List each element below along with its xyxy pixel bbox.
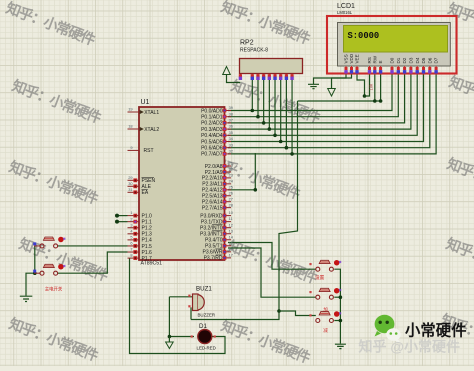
- svg-text:BUZ1: BUZ1: [196, 286, 212, 293]
- svg-text:RP2: RP2: [240, 40, 254, 47]
- svg-text:22: 22: [229, 167, 233, 172]
- svg-text:D5: D5: [421, 57, 426, 63]
- svg-text:D0: D0: [390, 57, 395, 63]
- svg-text:10k: 10k: [369, 83, 374, 91]
- svg-text:29: 29: [128, 175, 132, 180]
- svg-text:S:0000: S:0000: [348, 31, 380, 41]
- svg-text:31: 31: [128, 187, 132, 192]
- svg-text:15: 15: [229, 240, 233, 245]
- svg-text:D3: D3: [409, 57, 414, 63]
- svg-text:P0.1/AD1: P0.1/AD1: [201, 115, 223, 121]
- svg-text:13: 13: [229, 228, 233, 233]
- svg-text:P2.7/A15: P2.7/A15: [202, 205, 223, 211]
- svg-text:23: 23: [229, 173, 233, 178]
- svg-text:主电开关: 主电开关: [45, 286, 63, 293]
- svg-text:VDD: VDD: [349, 53, 354, 63]
- svg-text:XTAL2: XTAL2: [144, 127, 159, 133]
- svg-text:39: 39: [229, 105, 233, 110]
- svg-text:6: 6: [130, 241, 132, 246]
- svg-text:19: 19: [128, 107, 132, 112]
- svg-text:XTAL1: XTAL1: [144, 110, 159, 116]
- svg-text:P3.7/RD: P3.7/RD: [204, 256, 223, 262]
- svg-text:12: 12: [229, 222, 233, 227]
- svg-text:P0.0/AD0: P0.0/AD0: [201, 108, 223, 114]
- svg-text:LM016L: LM016L: [337, 10, 353, 15]
- svg-text:21: 21: [229, 161, 233, 166]
- svg-text:28: 28: [229, 202, 233, 207]
- svg-text:D2: D2: [402, 57, 407, 63]
- svg-text:36: 36: [229, 124, 233, 129]
- svg-text:P0.7/AD7: P0.7/AD7: [201, 152, 223, 158]
- svg-text:EA: EA: [142, 190, 149, 196]
- svg-text:37: 37: [229, 118, 233, 123]
- svg-text:D7: D7: [434, 57, 439, 63]
- svg-text:P0.6/AD6: P0.6/AD6: [201, 146, 223, 152]
- svg-text:P0.4/AD4: P0.4/AD4: [201, 133, 223, 139]
- svg-text:9: 9: [130, 145, 132, 150]
- svg-text:25: 25: [229, 184, 233, 189]
- svg-text:设置: 设置: [315, 274, 325, 281]
- svg-text:2: 2: [130, 216, 132, 221]
- svg-text:小常硬件: 小常硬件: [405, 322, 467, 340]
- svg-text:33: 33: [229, 142, 233, 147]
- svg-text:11: 11: [229, 216, 233, 221]
- svg-text:35: 35: [229, 130, 233, 135]
- svg-text:VEE: VEE: [355, 54, 360, 63]
- svg-text:1: 1: [130, 210, 132, 215]
- svg-text:32: 32: [229, 149, 233, 154]
- svg-text:26: 26: [229, 190, 233, 195]
- svg-text:3: 3: [130, 222, 132, 227]
- svg-text:RS: RS: [367, 57, 372, 63]
- svg-text:BUZZER: BUZZER: [198, 313, 216, 318]
- svg-text:5: 5: [130, 234, 132, 239]
- svg-text:RW: RW: [372, 55, 377, 63]
- svg-text:16: 16: [229, 246, 233, 251]
- svg-text:38: 38: [229, 111, 233, 116]
- svg-text:减: 减: [323, 327, 328, 334]
- svg-text:E: E: [378, 60, 383, 63]
- svg-text:27: 27: [229, 196, 233, 201]
- svg-text:18: 18: [128, 124, 132, 129]
- svg-text:8: 8: [130, 253, 132, 258]
- svg-text:VSS: VSS: [344, 54, 349, 63]
- svg-text:P0.5/AD5: P0.5/AD5: [201, 139, 223, 145]
- svg-text:D6: D6: [427, 57, 432, 63]
- svg-text:D1: D1: [396, 57, 401, 63]
- svg-text:知乎 @小常硬件: 知乎 @小常硬件: [359, 339, 461, 355]
- svg-text:P0.2/AD2: P0.2/AD2: [201, 121, 223, 127]
- svg-text:RESPACK-8: RESPACK-8: [240, 48, 268, 54]
- svg-text:U1: U1: [141, 99, 150, 106]
- svg-text:P0.3/AD3: P0.3/AD3: [201, 127, 223, 133]
- svg-text:P1.7: P1.7: [142, 256, 153, 262]
- svg-text:RST: RST: [144, 148, 154, 154]
- svg-text:LED-RED: LED-RED: [197, 346, 216, 351]
- svg-text:D4: D4: [415, 57, 420, 63]
- svg-text:17: 17: [229, 252, 233, 257]
- svg-text:7: 7: [130, 247, 132, 252]
